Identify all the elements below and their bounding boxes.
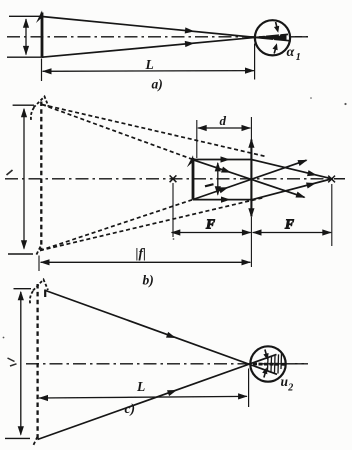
scan mark (fig b left) <box>7 170 13 175</box>
svg-text:L: L <box>145 57 154 72</box>
eye angle arrow upper (fig a) <box>274 22 281 33</box>
focal point x-mark right (fig b) <box>328 176 335 183</box>
object arrow (fig b) <box>187 155 194 200</box>
image height dimension arrow (fig c) <box>18 291 24 436</box>
dashed construction ray upper steep (fig b) <box>42 105 193 160</box>
dashed construction ray lower shallow (fig b) <box>40 198 264 251</box>
svg-text:d: d <box>220 113 227 128</box>
lens upper extension line (fig b) <box>250 117 252 141</box>
object arrow (fig a) <box>36 11 43 58</box>
svg-text:F: F <box>205 217 215 232</box>
F dimension right (fig b) <box>252 229 332 235</box>
optical axis (fig b) <box>5 178 345 180</box>
refracted ray from lens bottom (fig b) <box>251 179 333 200</box>
central ray ascending (fig b) <box>193 157 309 200</box>
image height dimension arrow (fig b) <box>21 108 27 250</box>
svg-text:|f|: |f| <box>136 246 146 261</box>
eye angle arrow upper (fig c) <box>263 350 270 361</box>
virtual image bottom tail (fig b) <box>36 247 41 256</box>
eye angle arrow lower (fig c) <box>262 366 269 377</box>
virtual image dashed arrow (fig b) <box>40 102 42 252</box>
svg-text:L: L <box>136 379 145 394</box>
virtual image bottom tail (fig c) <box>33 437 38 447</box>
bottom extension tick (fig b) <box>8 253 33 255</box>
svg-text:u: u <box>281 374 289 389</box>
L dimension left extension (fig a) <box>41 59 43 82</box>
dashed construction ray lower steep (fig b) <box>40 200 193 251</box>
L dimension line (fig c) <box>39 393 248 401</box>
refracted ray from lens top (fig b) <box>251 160 333 180</box>
ray parallel top (fig b) <box>193 156 251 162</box>
eye (fig c) <box>250 346 285 381</box>
scan marks (fig c left) <box>8 358 17 366</box>
|f| left extension (fig b) <box>38 256 40 272</box>
optical axis (fig a) <box>7 36 308 38</box>
bottom extension tick (fig c) <box>5 437 30 439</box>
top extension tick (fig a) <box>9 15 44 17</box>
svg-text:1: 1 <box>296 52 301 63</box>
svg-text:2: 2 <box>287 382 293 393</box>
focal point x-mark left (fig b) <box>170 175 177 182</box>
label u2 (fig c) <box>281 374 294 393</box>
scan speckles <box>3 97 347 338</box>
lens lower extension line (fig b) <box>250 217 252 267</box>
|f| dimension line (fig b) <box>40 259 251 265</box>
svg-text:F: F <box>284 217 294 232</box>
virtual image dashed arrow (fig c) <box>36 284 38 440</box>
L dimension right extension (fig a) <box>254 44 256 80</box>
L dimension right extension (fig c) <box>248 369 250 408</box>
svg-text:α: α <box>287 45 295 60</box>
d dimension line (fig b) <box>197 125 251 131</box>
top ray to eye (fig a) <box>42 17 289 41</box>
d dimension left extension (fig b) <box>196 120 198 158</box>
eye iris hatching (fig a) <box>259 34 287 41</box>
virtual image dashed arrowhead (fig c) <box>30 280 48 305</box>
bottom ray to eye (fig c) <box>38 354 277 439</box>
virtual image dashed arrowhead (fig b) <box>31 97 49 122</box>
svg-text:b): b) <box>143 273 154 288</box>
dashed construction ray upper shallow (fig b) <box>42 105 266 157</box>
L dimension line (fig a) <box>42 68 255 75</box>
F extension left (fig b) <box>172 183 174 237</box>
eye angle arrow lower (fig a) <box>272 42 279 53</box>
small height double arrow between rays (fig b) <box>215 162 221 196</box>
F extension right (fig b) <box>331 184 333 246</box>
svg-text:a): a) <box>152 77 163 92</box>
bottom extension tick (fig a) <box>7 56 44 58</box>
eye iris hatching (fig c) <box>253 353 285 373</box>
ray parallel bottom (fig b) <box>193 197 251 203</box>
lens double arrow (fig b) <box>248 138 254 217</box>
short dash mark (fig b) <box>205 184 214 186</box>
F dimension left (fig b) <box>171 229 252 235</box>
central ray descending (fig b) <box>193 160 306 201</box>
bottom ray to eye (fig a) <box>42 34 288 57</box>
svg-text:c): c) <box>125 401 136 416</box>
top ray to eye (fig c) <box>46 291 278 375</box>
top extension tick (fig b) <box>13 104 34 106</box>
arrowhead solid bar (fig c) <box>44 290 46 298</box>
optical axis (fig c) <box>26 363 308 365</box>
top extension tick (fig c) <box>14 288 32 290</box>
object height dimension arrow (fig a) <box>23 18 29 55</box>
label alpha1 (fig a) <box>287 45 301 63</box>
eye (fig a) <box>255 20 290 55</box>
